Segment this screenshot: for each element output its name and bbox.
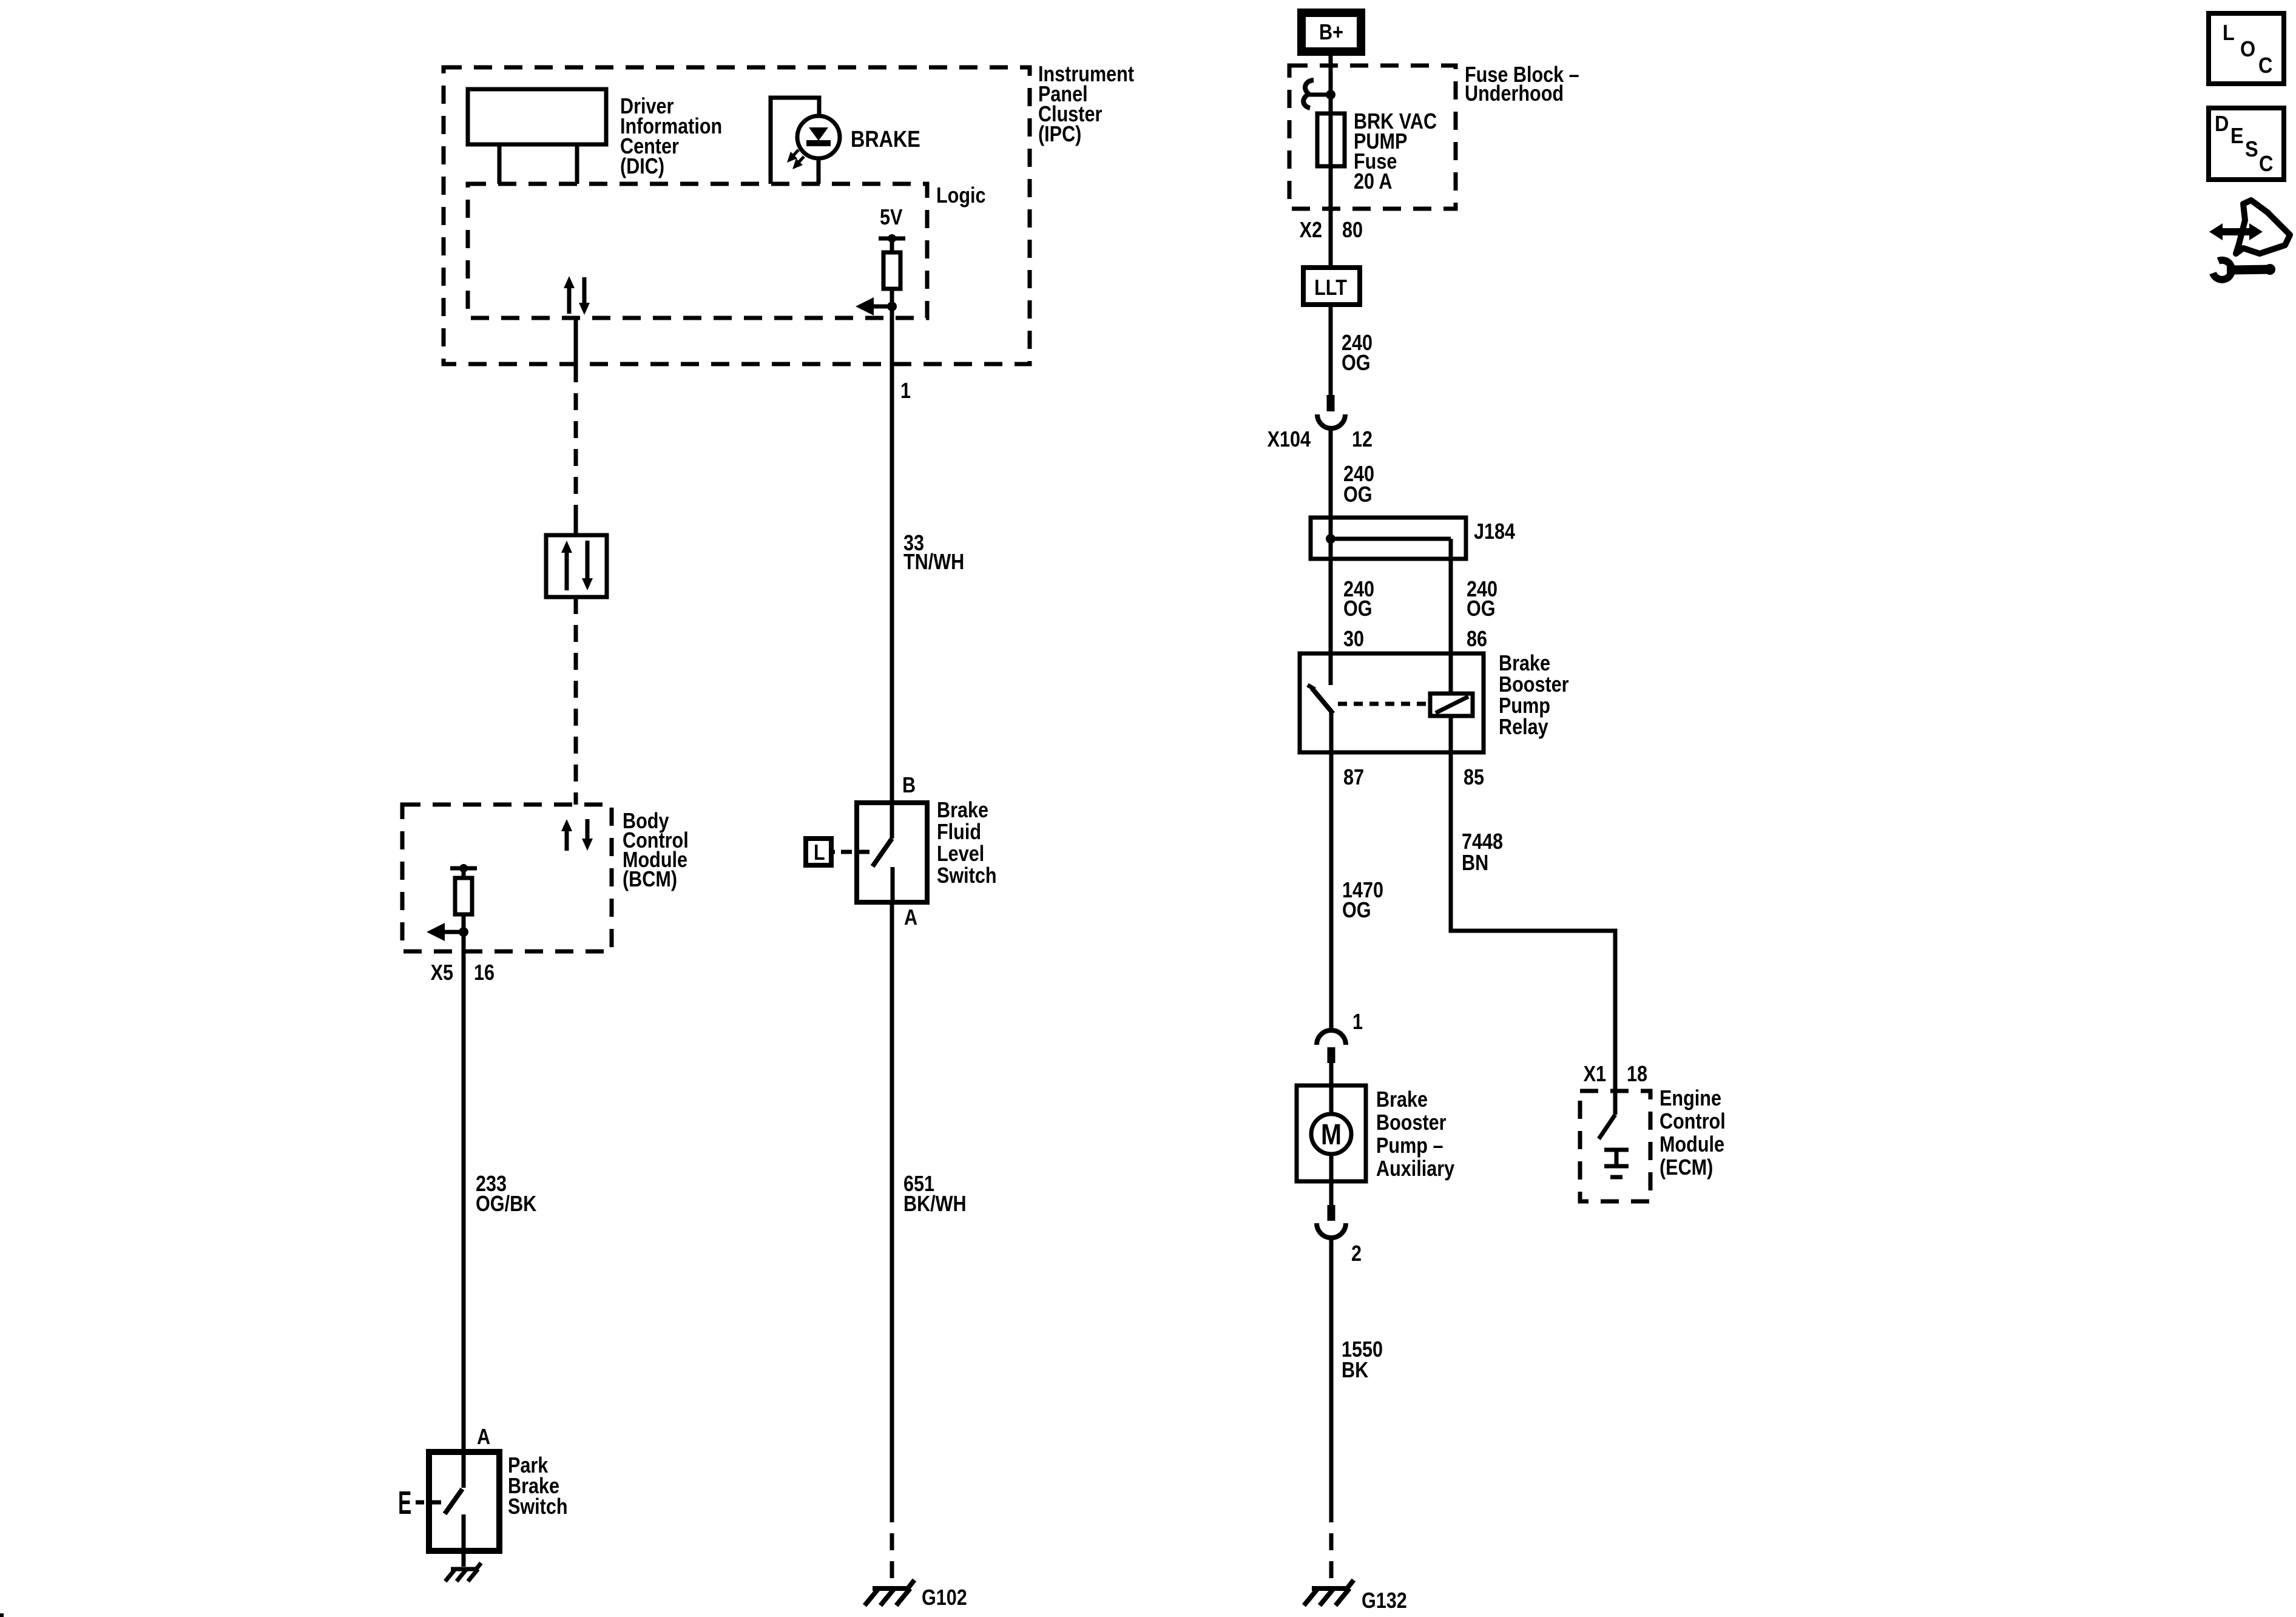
svg-text:E: E: [398, 1484, 411, 1521]
svg-text:X1: X1: [1584, 1062, 1606, 1087]
signal arrow into logic (left): [856, 297, 892, 316]
wire splice branch to relay coil: [1451, 539, 1615, 1091]
svg-text:S: S: [2245, 137, 2258, 161]
wire motor to connector 2: [1329, 1181, 1334, 1205]
svg-text:12: 12: [1352, 428, 1373, 452]
signal arrow into BCM logic (left): [427, 923, 464, 941]
LED diode triangle: [809, 127, 828, 141]
wire switch lower contact: [891, 867, 895, 902]
svg-text:X104: X104: [1268, 428, 1311, 452]
svg-text:240OG: 240OG: [1342, 331, 1373, 376]
wire DIC pin left: [498, 144, 502, 184]
svg-text:85: 85: [1464, 766, 1484, 790]
svg-text:B+: B+: [1319, 21, 1343, 45]
svg-text:87: 87: [1343, 766, 1364, 790]
splice J184 box: [1311, 518, 1466, 559]
wire L inside switch box: [857, 850, 869, 854]
fuse clip hook symbol: [1303, 80, 1314, 108]
wire BRAKE lamp loop: [771, 98, 819, 184]
wire motor top lead: [1329, 1085, 1334, 1115]
wire motor bottom lead: [1329, 1153, 1334, 1181]
wire 33 TN/WH from IPC pin 1 to brake fluid level switch: [890, 306, 894, 803]
icon box LOC: [2209, 13, 2284, 84]
node junction BCM: [459, 927, 468, 937]
power B+ box: [1302, 13, 1361, 52]
svg-text:E: E: [2230, 124, 2244, 148]
switch box Brake Fluid Level Switch: [857, 803, 927, 902]
wire serial data dashed (IPC to data box): [574, 365, 578, 521]
BCM supply dot: [459, 864, 468, 873]
svg-text:Logic: Logic: [936, 184, 986, 208]
svg-text:240OG: 240OG: [1343, 578, 1374, 621]
serial data arrow down (logic): [579, 277, 590, 315]
ECM ground bar 3: [1610, 1175, 1622, 1180]
svg-text:30: 30: [1343, 627, 1364, 652]
connector 1 female socket arc: [1317, 1030, 1346, 1045]
icon double arrow: [2209, 223, 2263, 240]
relay blade tip nub: [1308, 685, 1315, 689]
svg-text:1: 1: [900, 379, 911, 403]
svg-text:A: A: [904, 906, 917, 930]
svg-text:X2: X2: [1300, 218, 1322, 243]
motor box Brake Booster Pump - Auxiliary: [1297, 1085, 1366, 1181]
fuse BRK VAC PUMP 20A body: [1317, 113, 1345, 166]
data box arrow up: [561, 541, 572, 590]
module box BCM (Body Control Module) dashed border: [402, 805, 612, 951]
ECM ground stem: [1615, 1150, 1619, 1166]
svg-text:A: A: [477, 1425, 490, 1450]
svg-text:B: B: [902, 774, 916, 798]
wire LED to logic box: [817, 157, 821, 184]
icon box DESC: [2209, 108, 2284, 180]
LED light arrow 1: [787, 150, 799, 163]
wire park switch to ground: [462, 1551, 466, 1567]
module box ECM (Engine Control Module) dashed border: [1580, 1091, 1650, 1201]
logic block dashed border: [468, 184, 927, 318]
icon hand outline: [2236, 200, 2290, 254]
svg-text:80: 80: [1342, 218, 1363, 243]
wire resistor to junction: [890, 289, 894, 318]
resistor R pull-up (IPC): [883, 252, 900, 289]
ECM driver switch blade: [1599, 1115, 1615, 1139]
svg-text:G102: G102: [922, 1586, 967, 1610]
wire bar to resistor (BCM): [462, 868, 466, 878]
svg-text:Fuse Block –Underhood: Fuse Block –Underhood: [1465, 63, 1579, 106]
wire 5V to resistor: [890, 238, 894, 252]
svg-text:G132: G132: [1362, 1589, 1407, 1613]
module box DIC (Driver Information Center): [468, 89, 606, 144]
wire DIC pin right: [575, 144, 579, 184]
wire relay pin 87 down: [1329, 711, 1334, 1030]
relay coil box: [1430, 694, 1473, 716]
wire stub above data box: [574, 521, 578, 535]
ECM ground bar 1: [1604, 1148, 1629, 1152]
wire L dashed segment: [841, 850, 852, 854]
fuse block dashed border (Fuse Block - Underhood): [1289, 66, 1456, 209]
icon wrench: [2213, 260, 2275, 280]
ground park brake switch chassis symbol: [445, 1563, 481, 1581]
LED light arrow 2: [792, 157, 804, 169]
svg-text:BRAKE: BRAKE: [851, 127, 920, 152]
wire switch upper contact: [890, 803, 894, 839]
serial data link box: [546, 535, 607, 597]
wire clip to node: [1309, 93, 1331, 97]
svg-text:18: 18: [1627, 1062, 1647, 1087]
terminal box L: [806, 839, 831, 865]
page artifact dot bottom-left: [0, 1613, 4, 1617]
node fuse feed dot: [1326, 90, 1335, 100]
connector 2 male pin bar: [1328, 1205, 1335, 1221]
ground G102 chassis symbol: [865, 1580, 914, 1605]
svg-text:2: 2: [1351, 1242, 1362, 1266]
wire dashed to G102: [890, 1505, 894, 1585]
wire park switch upper contact: [462, 1452, 466, 1488]
label DESC letters: [2215, 112, 2273, 176]
BCM serial arrow down: [582, 819, 593, 851]
wire ECM pin 18 inside: [1613, 1091, 1618, 1115]
wire splice horizontal J184: [1331, 537, 1451, 541]
svg-text:M: M: [1321, 1119, 1342, 1151]
connector 2 female socket arc: [1317, 1223, 1346, 1238]
relay box Brake Booster Pump Relay: [1300, 653, 1484, 752]
indicator LED BRAKE circle: [797, 116, 840, 158]
node junction pull-up: [887, 302, 897, 311]
park brake switch blade: [445, 1489, 462, 1514]
svg-text:240OG: 240OG: [1343, 462, 1374, 507]
data box arrow down: [582, 541, 593, 590]
wire park switch lower contact: [462, 1514, 466, 1551]
wire B+ to fuse: [1329, 56, 1333, 395]
wire dashed to G132: [1329, 1505, 1334, 1585]
svg-text:C: C: [2259, 152, 2273, 176]
relay switch blade: [1312, 688, 1333, 714]
wire X104 to J184: [1329, 429, 1333, 685]
svg-text:X5: X5: [431, 961, 453, 985]
wire 1550 BK to ground: [1329, 1238, 1334, 1505]
wire connector 1 to motor: [1329, 1063, 1334, 1085]
wire L box stub: [831, 850, 835, 854]
wire 651 BK/WH to ground: [890, 902, 894, 1505]
wire LLT to connector X104: [1329, 305, 1333, 395]
BCM supply bar: [450, 866, 477, 871]
BCM serial arrow up: [561, 819, 572, 851]
wire serial data dashed (data box to BCM): [574, 597, 578, 805]
switch blade (brake fluid level): [873, 839, 892, 866]
wire E inside box: [429, 1501, 441, 1505]
switch box Park Brake Switch: [429, 1452, 499, 1551]
svg-text:O: O: [2240, 37, 2255, 61]
wire resistor to junction (BCM): [462, 914, 466, 951]
wire E dash: [416, 1501, 424, 1505]
svg-text:1: 1: [1352, 1010, 1363, 1035]
relay coil diagonal: [1436, 697, 1468, 713]
svg-text:5V: 5V: [880, 206, 903, 230]
LED cathode bar: [806, 140, 831, 146]
node splice dot J184: [1326, 534, 1335, 544]
node 5V supply bar: [879, 237, 905, 241]
svg-text:16: 16: [474, 961, 495, 985]
relay actuation dashed line: [1338, 702, 1426, 706]
ECM ground bar 2: [1604, 1164, 1629, 1169]
serial data arrow up (logic): [564, 276, 575, 314]
motor M circle: [1311, 1114, 1351, 1154]
wire 233 OG/BK to park brake switch: [462, 951, 466, 1452]
wire serial data (logic to IPC edge): [574, 318, 578, 365]
label LOC letters: [2223, 21, 2272, 78]
svg-text:L: L: [2223, 21, 2235, 45]
svg-text:J184: J184: [1474, 520, 1515, 544]
svg-text:D: D: [2215, 112, 2229, 136]
svg-text:240OG: 240OG: [1467, 578, 1497, 621]
device box LLT: [1303, 268, 1360, 305]
module box IPC (Instrument Panel Cluster) dashed border: [444, 67, 1030, 364]
svg-text:L: L: [814, 841, 825, 865]
ground G132 chassis symbol: [1304, 1580, 1354, 1605]
connector 1 male pin bar: [1328, 1047, 1335, 1063]
node 5V dot: [888, 234, 896, 243]
svg-text:LLT: LLT: [1314, 276, 1347, 300]
connector X104 male pin bar: [1327, 395, 1335, 411]
connector X104 female socket arc: [1317, 414, 1345, 428]
resistor R pull-up (BCM): [455, 878, 472, 914]
svg-text:C: C: [2258, 53, 2272, 78]
svg-text:86: 86: [1467, 627, 1487, 652]
